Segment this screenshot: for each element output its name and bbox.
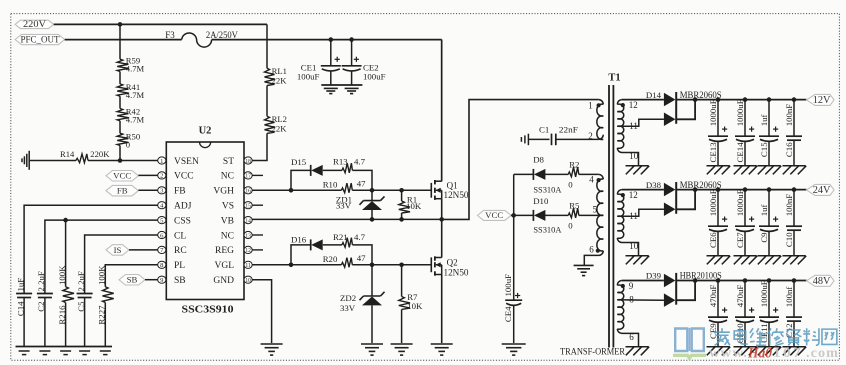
svg-text:5: 5 xyxy=(593,205,598,215)
T1 secondary winding (12V) xyxy=(617,100,625,149)
capacitor C10 100nF xyxy=(784,187,802,256)
ground (CE13) xyxy=(707,165,730,167)
diode D10 SS310A xyxy=(514,196,569,235)
svg-text:ADJ: ADJ xyxy=(174,202,192,212)
resistor R21 4.7 xyxy=(333,232,372,265)
ground (ZD2) xyxy=(361,343,383,345)
ground (Q2 source) xyxy=(431,343,453,345)
svg-text:PL: PL xyxy=(174,261,185,271)
svg-text:VS: VS xyxy=(222,202,234,212)
svg-text:F3: F3 xyxy=(165,30,175,40)
svg-text:12: 12 xyxy=(245,247,251,254)
diode D8 SS310A xyxy=(514,155,569,195)
U2 pin 1 VSEN xyxy=(158,157,199,167)
capacitor CE4 100uF xyxy=(503,274,522,343)
U2 pin 12 REG xyxy=(215,246,263,256)
svg-text:11: 11 xyxy=(245,262,251,269)
svg-text:SSC3S910: SSC3S910 xyxy=(182,304,235,316)
wire T1 pin6 to ground xyxy=(584,251,603,265)
junction VSEN node xyxy=(118,158,123,163)
svg-text:D14: D14 xyxy=(646,90,662,100)
ground (R7) xyxy=(391,343,413,345)
resistor R14 220K xyxy=(29,149,120,163)
ground (C10) xyxy=(783,255,806,257)
resistor R50 0 xyxy=(117,121,140,161)
wire 12V winding return xyxy=(617,148,638,166)
svg-text:R5: R5 xyxy=(569,201,580,211)
ground (C16) xyxy=(783,165,806,167)
svg-text:33V: 33V xyxy=(336,201,352,211)
svg-text:14: 14 xyxy=(245,217,251,224)
svg-text:100nf: 100nf xyxy=(784,287,794,308)
junction R7 top xyxy=(399,263,404,268)
diode D39 HBR20100S xyxy=(617,271,721,307)
resistor R7 10K xyxy=(399,265,423,343)
svg-text:1uf: 1uf xyxy=(759,115,769,127)
capacitor CE11 1000uF xyxy=(759,278,779,347)
svg-text:C10: C10 xyxy=(784,232,794,247)
wire 220V rail xyxy=(54,23,267,25)
resistor R59 4.7M xyxy=(117,24,144,73)
svg-text:D16: D16 xyxy=(291,235,307,245)
ground (U2 GND) xyxy=(261,343,283,345)
svg-text:RC: RC xyxy=(174,246,187,256)
ground (CE4) xyxy=(502,343,526,345)
net label FB (pin3) xyxy=(106,185,158,196)
svg-text:107: 107 xyxy=(773,345,803,360)
transformer core xyxy=(608,85,610,348)
svg-text:D38: D38 xyxy=(646,180,662,190)
svg-text:CSS: CSS xyxy=(174,216,191,226)
svg-text:12: 12 xyxy=(629,190,638,200)
svg-text:1: 1 xyxy=(588,101,593,111)
svg-text:13: 13 xyxy=(245,232,251,239)
U2 pin 7 RC xyxy=(158,246,187,256)
svg-text:100K: 100K xyxy=(97,265,107,285)
ground (C1, sideways) xyxy=(527,134,529,146)
svg-text:22nF: 22nF xyxy=(559,125,578,135)
ground (CE6) xyxy=(707,255,730,257)
U2 pin 10 GND xyxy=(213,276,252,286)
net label 220V xyxy=(15,19,54,29)
net label 48V xyxy=(807,275,835,287)
svg-text:220V: 220V xyxy=(23,19,47,29)
ground (48V winding) xyxy=(626,346,649,348)
wire VSEN to pin1 xyxy=(120,160,158,162)
resistor R5 0 xyxy=(568,201,603,231)
svg-text:R21: R21 xyxy=(333,232,348,242)
svg-text:www.: www. xyxy=(709,345,748,360)
ground (CE7) xyxy=(734,255,757,257)
U2 pin 14 VB xyxy=(221,216,252,226)
svg-text:FB: FB xyxy=(174,187,186,197)
fuse F3 2A/250V xyxy=(165,30,238,47)
svg-text:C1: C1 xyxy=(539,125,549,135)
T1 secondary winding (24V) xyxy=(617,190,625,239)
svg-text:R14: R14 xyxy=(60,149,75,159)
capacitor C1 22nF xyxy=(528,125,598,146)
svg-text:470uF: 470uF xyxy=(708,285,718,308)
wire 48V output rail xyxy=(676,280,806,282)
svg-text:11: 11 xyxy=(629,211,638,221)
svg-text:TRANSF-ORMER: TRANSF-ORMER xyxy=(560,348,626,358)
svg-text:47: 47 xyxy=(357,253,366,263)
svg-text:18: 18 xyxy=(245,158,251,165)
svg-text:VGL: VGL xyxy=(214,261,234,271)
svg-text:4.7: 4.7 xyxy=(354,156,366,166)
U2 pin 6 CL xyxy=(158,231,187,241)
ground (bottom-left shared) xyxy=(16,346,113,348)
U2 pin 16 VGH xyxy=(213,187,252,197)
U2 pin 15 VS xyxy=(222,202,263,212)
ground (C9) xyxy=(758,255,781,257)
svg-text:100nF: 100nF xyxy=(784,194,794,217)
svg-text:0: 0 xyxy=(126,139,130,149)
svg-text:2.2uF: 2.2uF xyxy=(36,271,46,291)
U2 pin 3 FB xyxy=(158,187,186,197)
svg-text:REG: REG xyxy=(215,246,234,256)
svg-text:GND: GND xyxy=(213,276,234,286)
svg-text:VB: VB xyxy=(221,216,234,226)
svg-text:2: 2 xyxy=(160,173,163,180)
svg-text:VCC: VCC xyxy=(113,171,131,181)
U2 pin 13 NC xyxy=(221,231,263,241)
ground (CE10) xyxy=(734,346,757,348)
svg-text:CE7: CE7 xyxy=(735,232,745,248)
op-amp U2 SSC3S910 controller IC body xyxy=(166,125,244,315)
svg-text:D10: D10 xyxy=(533,196,549,206)
wire pin8 PL to R227 xyxy=(105,265,158,287)
svg-text:11: 11 xyxy=(629,121,638,131)
svg-text:10K: 10K xyxy=(406,201,422,211)
svg-text:FB: FB xyxy=(117,186,128,196)
capacitor C14 1uF xyxy=(15,278,32,347)
ground (CE14) xyxy=(734,165,757,167)
resistor R42 4.7M xyxy=(117,96,144,124)
resistor R10 47 xyxy=(323,179,366,193)
capacitor CE6 1000uF xyxy=(708,187,728,256)
svg-text:R10: R10 xyxy=(323,180,338,190)
wire pin5 CSS to C2/R216 xyxy=(45,220,158,293)
T1 primary winding pins 4-5-6 xyxy=(589,175,603,255)
resistor R20 47 xyxy=(323,253,366,267)
svg-text:100uF: 100uF xyxy=(297,71,320,81)
svg-text:2.2uF: 2.2uF xyxy=(76,271,86,291)
diode D16 xyxy=(291,235,342,265)
svg-text:ST: ST xyxy=(223,157,234,167)
svg-text:R216: R216 xyxy=(57,305,67,325)
svg-text:SS310A: SS310A xyxy=(533,226,561,235)
svg-text:9: 9 xyxy=(629,281,634,291)
zener ZD1 33V xyxy=(336,190,385,219)
U2 pin 8 PL xyxy=(158,261,186,271)
U2 pin 11 VGL xyxy=(214,261,252,271)
svg-text:12N50: 12N50 xyxy=(444,267,470,277)
svg-text:CL: CL xyxy=(174,231,186,241)
svg-text:1000uF: 1000uF xyxy=(708,189,718,216)
capacitor CE9 470uF xyxy=(708,278,728,347)
svg-text:RL1: RL1 xyxy=(272,66,287,76)
wire VGL row xyxy=(252,264,341,266)
transistor Q2 12N50 xyxy=(431,219,469,343)
svg-text:NC: NC xyxy=(221,231,234,241)
junction CSS/R216 xyxy=(63,218,68,223)
svg-text:10: 10 xyxy=(245,277,251,284)
junction 220V/R59 xyxy=(118,22,123,27)
watermark url xyxy=(709,345,839,362)
svg-text:24V: 24V xyxy=(813,185,831,196)
svg-text:C9: C9 xyxy=(759,232,769,243)
svg-text:1000uF: 1000uF xyxy=(735,189,745,216)
svg-text:1000uF: 1000uF xyxy=(708,99,718,126)
ground (C12) xyxy=(783,346,806,348)
svg-text:ZD2: ZD2 xyxy=(340,293,356,303)
svg-text:4.7M: 4.7M xyxy=(126,115,145,125)
svg-text:4.7: 4.7 xyxy=(354,232,366,242)
capacitor CE10 470uF xyxy=(735,278,755,347)
svg-text:4: 4 xyxy=(589,175,594,185)
svg-text:SB: SB xyxy=(174,276,186,286)
svg-text:48V: 48V xyxy=(813,276,831,287)
svg-text:8: 8 xyxy=(629,295,634,305)
wire VCC vertical xyxy=(513,174,515,300)
svg-text:220K: 220K xyxy=(90,149,110,159)
resistor R216 100K xyxy=(57,220,74,346)
junction diode D39 output xyxy=(693,278,698,283)
ground (12V winding) xyxy=(626,165,649,167)
svg-text:470uF: 470uF xyxy=(735,285,745,308)
capacitor C15 1uf xyxy=(759,97,779,166)
svg-text:17: 17 xyxy=(245,173,251,180)
svg-text:0: 0 xyxy=(568,221,573,231)
svg-text:2A/250V: 2A/250V xyxy=(206,30,238,40)
capacitor CE2 100uF xyxy=(342,37,386,85)
wire 24V winding return xyxy=(617,238,638,256)
net label SB (pin9) xyxy=(119,275,158,286)
svg-text:12: 12 xyxy=(629,100,638,110)
T1 secondary winding (48V) xyxy=(617,281,625,330)
svg-text:R13: R13 xyxy=(333,156,348,166)
watermark book icon xyxy=(673,328,706,358)
svg-text:C16: C16 xyxy=(784,142,794,157)
wire 12V output rail xyxy=(676,99,806,101)
net label 24V xyxy=(807,184,835,196)
svg-text:SB: SB xyxy=(127,275,138,285)
svg-text:SS310A: SS310A xyxy=(533,185,561,194)
svg-text:VGH: VGH xyxy=(213,187,234,197)
svg-text:100K: 100K xyxy=(57,265,67,285)
svg-text:.com: .com xyxy=(806,345,839,360)
svg-text:CE4: CE4 xyxy=(503,306,513,322)
ground (CE9) xyxy=(707,346,730,348)
svg-text:C15: C15 xyxy=(759,142,769,157)
zener ZD2 33V xyxy=(340,265,385,343)
ground (left of R14) xyxy=(28,151,30,170)
wire switch node to T1 pin1 xyxy=(442,100,599,220)
svg-text:4.7M: 4.7M xyxy=(126,63,145,73)
resistor RL1 22K xyxy=(265,66,288,86)
wire pin10 GND xyxy=(252,280,271,343)
junction ZD1 bottom xyxy=(370,217,375,222)
ground (C15) xyxy=(758,165,781,167)
junction R1 bottom xyxy=(399,217,404,222)
svg-text:33V: 33V xyxy=(340,303,356,313)
junction VCC node xyxy=(511,213,516,218)
svg-text:1uF: 1uF xyxy=(15,278,25,292)
transistor Q1 12N50 xyxy=(431,40,469,220)
U2 pin 17 NC xyxy=(221,172,263,182)
svg-text:1000uF: 1000uF xyxy=(735,99,745,126)
svg-text:Ha0: Ha0 xyxy=(747,346,772,362)
svg-text:VCC: VCC xyxy=(174,172,194,182)
svg-text:16: 16 xyxy=(245,188,251,195)
svg-text:VCC: VCC xyxy=(485,210,503,220)
diode D38 MBR2060S xyxy=(617,180,721,216)
svg-text:12N50: 12N50 xyxy=(444,190,470,200)
junction R13/ZD1 xyxy=(370,188,375,193)
svg-text:100uF: 100uF xyxy=(363,71,386,81)
ground (CE1 CE2) xyxy=(321,84,362,86)
svg-text:IS: IS xyxy=(114,245,122,255)
svg-text:22K: 22K xyxy=(272,124,288,134)
resistor R2 0 xyxy=(568,160,599,190)
net label PFC_OUT xyxy=(15,34,65,44)
net label VCC (pin2) xyxy=(106,171,158,182)
svg-text:VSEN: VSEN xyxy=(174,157,199,167)
svg-text:C2: C2 xyxy=(36,302,46,312)
resistor R41 4.7M xyxy=(117,72,144,100)
junction R21/ZD2 xyxy=(370,263,375,268)
capacitor CE13 1000uF xyxy=(708,97,728,166)
svg-text:CE6: CE6 xyxy=(708,232,718,248)
svg-text:1000uF: 1000uF xyxy=(759,280,769,307)
wire VGH row xyxy=(252,189,341,191)
diode D14 MBR2060S xyxy=(617,90,721,126)
svg-text:C14: C14 xyxy=(15,301,25,316)
junction switch node xyxy=(439,217,444,222)
capacitor CE1 100uF xyxy=(297,37,341,85)
ground (T1 pin 6) xyxy=(574,264,594,266)
capacitor C9 1uf xyxy=(759,187,779,256)
svg-text:6: 6 xyxy=(589,244,594,254)
svg-text:U2: U2 xyxy=(199,125,212,136)
junction R1 top xyxy=(399,188,404,193)
capacitor CE7 1000uF xyxy=(735,187,755,256)
wire PFC_OUT rail xyxy=(65,39,182,41)
ground (CE11) xyxy=(758,346,781,348)
svg-text:2: 2 xyxy=(588,131,593,141)
svg-text:D39: D39 xyxy=(646,271,662,281)
capacitor C2 2.2uF xyxy=(36,271,53,346)
svg-text:CE14: CE14 xyxy=(735,142,745,163)
resistor RL2 22K xyxy=(265,86,288,134)
svg-text:47: 47 xyxy=(357,179,366,189)
wire pin6 CL to C5 xyxy=(85,235,158,294)
T1 primary winding pins 1-2 xyxy=(588,101,603,142)
svg-text:D15: D15 xyxy=(291,157,307,167)
svg-text:12V: 12V xyxy=(813,95,831,106)
svg-text:PFC_OUT: PFC_OUT xyxy=(21,35,60,45)
svg-text:R20: R20 xyxy=(323,254,338,264)
svg-text:0: 0 xyxy=(568,180,573,190)
svg-text:1: 1 xyxy=(160,158,163,165)
wire RL2 to pin18 xyxy=(252,133,267,160)
svg-text:R2: R2 xyxy=(569,160,579,170)
diode D15 xyxy=(291,157,342,191)
resistor R227 100K xyxy=(97,265,114,347)
svg-text:C5: C5 xyxy=(76,301,86,312)
svg-text:100nF: 100nF xyxy=(784,104,794,127)
U2 pin 2 VCC xyxy=(158,172,194,182)
junction VGL branch xyxy=(289,263,294,268)
junction VGH branch xyxy=(289,188,294,193)
resistor R1 10K xyxy=(399,190,422,219)
T1 pin labels (24V) xyxy=(629,190,639,251)
svg-text:Q2: Q2 xyxy=(447,258,458,268)
wire 24V output rail xyxy=(676,189,806,191)
resistor R13 4.7 xyxy=(333,156,372,190)
junction diode D14 output xyxy=(693,97,698,102)
T1 pin labels (48V) xyxy=(629,281,634,342)
net label 12V xyxy=(807,94,835,106)
svg-text:CE13: CE13 xyxy=(708,142,718,163)
junction diode D38 output xyxy=(693,187,698,192)
svg-text:10K: 10K xyxy=(407,301,423,311)
net label VCC (aux supply) xyxy=(477,210,513,220)
U2 pin 5 CSS xyxy=(158,216,191,226)
svg-text:RL2: RL2 xyxy=(272,114,287,124)
wire 48V winding return xyxy=(617,329,638,347)
svg-text:R227: R227 xyxy=(97,305,107,325)
svg-text:1uf: 1uf xyxy=(759,205,769,217)
wire pin4 ADJ to C14 xyxy=(24,205,158,293)
ground (24V winding) xyxy=(626,255,649,257)
wire VB pin14 rail xyxy=(252,218,442,220)
net label IS (pin7) xyxy=(106,245,158,256)
svg-text:T1: T1 xyxy=(608,73,620,84)
T1 pin labels (12V) xyxy=(629,100,639,161)
svg-text:CE9: CE9 xyxy=(708,323,718,339)
U2 pin 4 ADJ xyxy=(158,202,192,212)
capacitor C16 100nF xyxy=(784,97,802,166)
svg-text:NC: NC xyxy=(221,172,234,182)
svg-text:100uF: 100uF xyxy=(503,274,513,297)
svg-text:15: 15 xyxy=(245,203,251,210)
svg-text:4.7M: 4.7M xyxy=(126,90,145,100)
svg-text:22K: 22K xyxy=(272,76,288,86)
capacitor CE14 1000uF xyxy=(735,97,755,166)
watermark text 家电维修资料网 xyxy=(714,328,837,346)
U2 pin 18 ST xyxy=(223,157,252,167)
capacitor C5 2.2uF xyxy=(76,271,93,346)
capacitor C12 100nf xyxy=(784,278,802,347)
U2 pin 9 SB xyxy=(158,276,186,286)
svg-text:D8: D8 xyxy=(533,155,544,165)
